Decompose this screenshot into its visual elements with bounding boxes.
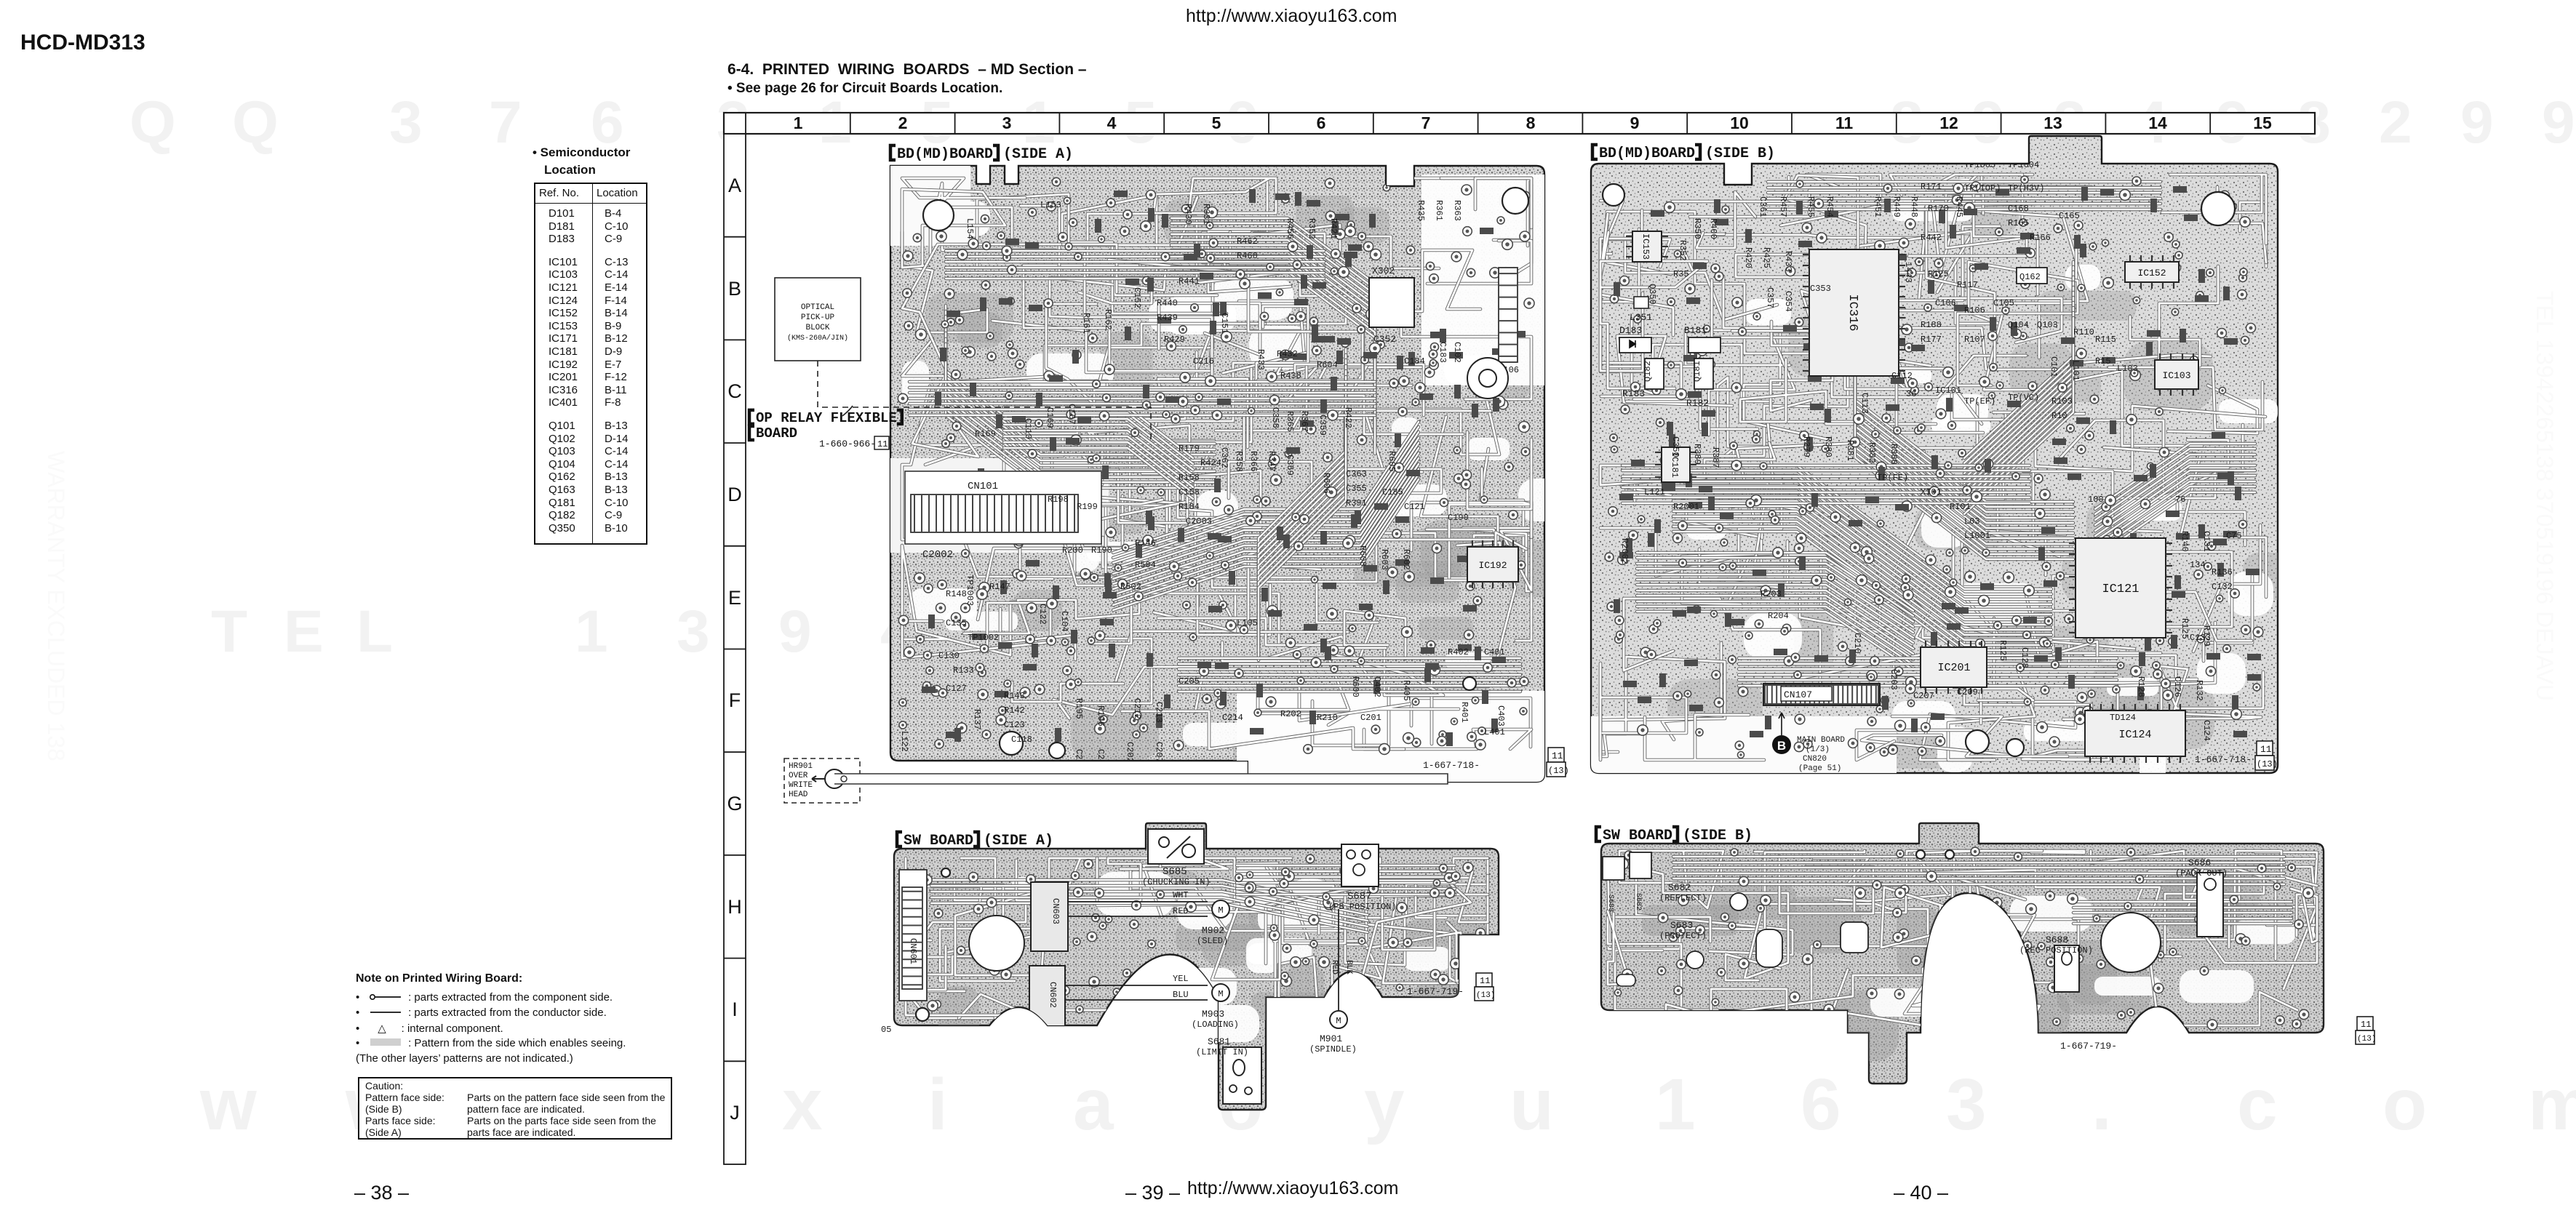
- svg-text:11: 11: [1552, 750, 1563, 761]
- svg-text:R456: R456: [1285, 218, 1295, 239]
- svg-text:C208: C208: [1074, 749, 1084, 770]
- svg-text:R161: R161: [1081, 313, 1091, 334]
- svg-text:C101: C101: [2049, 356, 2059, 377]
- svg-text:R188: R188: [1921, 320, 1942, 330]
- svg-text:(SLED): (SLED): [1197, 936, 1228, 946]
- svg-text:R432: R432: [1277, 349, 1298, 359]
- svg-text:BD(MD)BOARD: BD(MD)BOARD: [1599, 145, 1695, 162]
- svg-text:C: C: [727, 380, 742, 402]
- svg-text:R169: R169: [975, 429, 996, 439]
- svg-text:C207: C207: [1154, 742, 1164, 763]
- svg-text:TP(VC): TP(VC): [2008, 393, 2039, 403]
- svg-text:R600: R600: [1350, 676, 1360, 697]
- svg-text:C151: C151: [1219, 313, 1229, 334]
- svg-text:WRITE: WRITE: [789, 781, 813, 790]
- svg-text:R170: R170: [1928, 204, 1949, 214]
- svg-text:S685: S685: [1163, 866, 1187, 878]
- svg-text:C202: C202: [1125, 742, 1135, 763]
- svg-text:1-667-719-: 1-667-719-: [1407, 986, 1464, 997]
- svg-text:(LIMIT IN): (LIMIT IN): [1196, 1047, 1248, 1057]
- svg-text:C106: C106: [1935, 298, 1956, 308]
- svg-text:R361: R361: [1434, 200, 1444, 221]
- svg-text:11: 11: [2361, 1020, 2371, 1030]
- svg-text:S683: S683: [1606, 894, 1614, 912]
- svg-text:R602: R602: [1401, 549, 1411, 570]
- svg-text:R146: R146: [1135, 538, 1156, 548]
- svg-text:C132: C132: [2212, 582, 2233, 592]
- svg-text:R435: R435: [1416, 200, 1426, 221]
- svg-text:R448: R448: [1909, 196, 1919, 217]
- svg-text:R352: R352: [1678, 240, 1688, 261]
- svg-text:A: A: [728, 175, 741, 196]
- svg-text:IC101: IC101: [1935, 385, 1961, 396]
- svg-text:TP(EF): TP(EF): [1964, 396, 1995, 407]
- svg-text:TP(FE): TP(FE): [1877, 473, 1908, 483]
- svg-text:(PROTECT): (PROTECT): [1659, 931, 1707, 941]
- svg-text:R388: R388: [1889, 444, 1899, 465]
- svg-text:R35: R35: [1673, 269, 1689, 279]
- svg-text:R433: R433: [1256, 349, 1266, 370]
- svg-text:RED: RED: [1330, 960, 1339, 974]
- svg-text:R504: R504: [1135, 560, 1156, 570]
- svg-text:C124: C124: [2201, 720, 2212, 741]
- svg-text:M902: M902: [1202, 925, 1224, 936]
- svg-text:OPTICAL: OPTICAL: [801, 303, 834, 312]
- svg-text:R158: R158: [1179, 473, 1200, 483]
- svg-text:C203: C203: [1889, 669, 1899, 690]
- svg-text:3: 3: [1002, 113, 1012, 132]
- svg-text:(13): (13): [1548, 766, 1569, 776]
- svg-text:4: 4: [1107, 113, 1117, 132]
- svg-text:IC124: IC124: [2118, 729, 2151, 741]
- svg-text:F: F: [729, 689, 741, 711]
- svg-text:CN603: CN603: [1050, 898, 1061, 924]
- svg-text:C353: C353: [1810, 284, 1831, 294]
- svg-text:Q181: Q181: [1692, 361, 1702, 382]
- svg-text:S682: S682: [1668, 882, 1691, 893]
- svg-text:C121: C121: [1404, 502, 1425, 512]
- svg-text:R400: R400: [1708, 218, 1718, 239]
- svg-text:OVER: OVER: [789, 772, 808, 780]
- svg-text:L105: L105: [1237, 618, 1258, 628]
- svg-text:S686: S686: [2188, 857, 2211, 868]
- svg-text:R402: R402: [1448, 647, 1469, 657]
- svg-text:R454: R454: [1825, 196, 1835, 217]
- svg-text:C183: C183: [1437, 342, 1448, 363]
- svg-text:B: B: [728, 278, 741, 300]
- svg-text:R199: R199: [1077, 502, 1098, 512]
- svg-text:R387: R387: [1710, 447, 1720, 468]
- svg-text:R2002: R2002: [1619, 538, 1630, 564]
- svg-text:PICK-UP: PICK-UP: [801, 313, 835, 322]
- svg-text:C210: C210: [1852, 633, 1862, 654]
- svg-text:IC153: IC153: [1640, 233, 1651, 260]
- svg-text:R162: R162: [1103, 309, 1113, 330]
- svg-text:R147: R147: [989, 582, 1010, 592]
- svg-text:R171: R171: [1921, 182, 1942, 192]
- svg-text:R142: R142: [1004, 705, 1025, 716]
- svg-text:IC192: IC192: [1478, 560, 1507, 571]
- svg-text:C359: C359: [1317, 415, 1328, 436]
- svg-text:134: 134: [2190, 560, 2206, 570]
- svg-text:TP1004: TP1004: [2008, 160, 2039, 170]
- svg-text:R210: R210: [1317, 713, 1338, 723]
- svg-text:SW BOARD: SW BOARD: [904, 833, 973, 849]
- svg-text:R389: R389: [1692, 444, 1702, 465]
- svg-text:HEAD: HEAD: [789, 790, 808, 799]
- svg-text:R103: R103: [2051, 396, 2073, 407]
- svg-text:12: 12: [1939, 113, 1958, 132]
- svg-text:R367: R367: [1299, 411, 1309, 432]
- svg-text:C158: C158: [1179, 487, 1200, 497]
- svg-text:M903: M903: [1202, 1009, 1224, 1020]
- svg-text:R455: R455: [1806, 196, 1816, 217]
- svg-text:R117: R117: [1957, 280, 1978, 290]
- svg-text:C105: C105: [1993, 298, 2014, 308]
- svg-text:R166: R166: [2030, 233, 2051, 243]
- svg-text:C363: C363: [1346, 469, 1367, 479]
- svg-text:C123: C123: [1004, 720, 1025, 730]
- svg-text:C2002: C2002: [922, 549, 953, 561]
- svg-text:CN107: CN107: [1784, 689, 1812, 700]
- svg-text:7: 7: [1421, 113, 1431, 132]
- svg-text:L153: L153: [1040, 200, 1061, 210]
- svg-text:(13): (13): [1476, 991, 1495, 1000]
- svg-text:R140: R140: [2180, 531, 2190, 552]
- svg-text:C128: C128: [2019, 647, 2030, 668]
- svg-text:Q182: Q182: [1643, 361, 1653, 382]
- svg-text:HR901: HR901: [789, 762, 813, 771]
- svg-text:C127: C127: [946, 684, 967, 694]
- svg-text:C2003: C2003: [1186, 516, 1212, 527]
- svg-text:IC103: IC103: [2162, 370, 2190, 381]
- svg-text:9: 9: [1630, 113, 1640, 132]
- svg-text:C352: C352: [1373, 334, 1396, 345]
- svg-text:C135: C135: [946, 618, 967, 628]
- svg-text:C110: C110: [1023, 418, 1033, 439]
- svg-text:S688: S688: [2046, 934, 2068, 945]
- svg-text:R608: R608: [1357, 545, 1368, 567]
- svg-text:IC152: IC152: [2137, 268, 2166, 279]
- svg-text:R198: R198: [1048, 495, 1069, 505]
- svg-text:C152: C152: [1132, 287, 1142, 308]
- svg-text:C201: C201: [1360, 713, 1381, 723]
- svg-text:R115: R115: [2095, 335, 2116, 345]
- svg-text:MAIN BOARD: MAIN BOARD: [1797, 736, 1845, 745]
- svg-text:C118: C118: [1011, 734, 1032, 745]
- svg-text:R106: R106: [1964, 305, 1985, 316]
- svg-text:(1/3): (1/3): [1806, 745, 1830, 754]
- svg-text:R148: R148: [946, 589, 967, 599]
- svg-text:R605: R605: [1387, 451, 1397, 472]
- svg-text:R502: R502: [1120, 582, 1141, 592]
- svg-text:100: 100: [2088, 495, 2104, 505]
- svg-text:R439: R439: [1157, 313, 1178, 323]
- svg-text:R165: R165: [2008, 218, 2029, 228]
- svg-text:R182: R182: [1686, 398, 1709, 409]
- svg-text:(SIDE A): (SIDE A): [1003, 146, 1073, 163]
- svg-text:1443: 1443: [1903, 262, 1913, 283]
- svg-text:B: B: [1777, 739, 1786, 753]
- svg-text:M: M: [1218, 905, 1223, 916]
- svg-text:L154: L154: [965, 218, 975, 239]
- svg-text:C357: C357: [1765, 287, 1775, 308]
- svg-text:R382: R382: [1867, 442, 1877, 463]
- svg-text:Q162: Q162: [2019, 272, 2041, 282]
- svg-text:R200: R200: [1062, 545, 1083, 556]
- svg-text:M901: M901: [1320, 1033, 1342, 1044]
- svg-text:C213: C213: [1154, 702, 1164, 723]
- svg-text:R424: R424: [1200, 458, 1221, 468]
- svg-text:(SIDE B): (SIDE B): [1683, 828, 1752, 844]
- svg-text:Q104: Q104: [2008, 320, 2029, 330]
- svg-text:R363: R363: [1452, 200, 1462, 221]
- svg-text:B181: B181: [1684, 325, 1707, 336]
- svg-text:CN820: CN820: [1803, 755, 1827, 764]
- svg-text:CN602: CN602: [1048, 982, 1058, 1008]
- svg-text:I: I: [732, 998, 738, 1020]
- svg-text:R352: R352: [1307, 218, 1317, 239]
- svg-text:C190: C190: [1448, 513, 1469, 523]
- svg-text:L121: L121: [1644, 487, 1665, 497]
- svg-text:(LOADING): (LOADING): [1192, 1020, 1239, 1030]
- svg-text:R107: R107: [1964, 335, 1985, 345]
- svg-text:(SIDE B): (SIDE B): [1705, 145, 1775, 162]
- svg-text:R441: R441: [1179, 276, 1200, 287]
- svg-text:BLOCK: BLOCK: [805, 324, 829, 332]
- svg-text:C209: C209: [1957, 687, 1978, 697]
- svg-text:L351: L351: [1630, 312, 1652, 323]
- svg-text:R137: R137: [972, 709, 982, 730]
- svg-text:X302: X302: [1372, 265, 1395, 276]
- svg-text:XI01: XI01: [1921, 487, 1942, 497]
- svg-text:C122: C122: [1037, 604, 1048, 625]
- svg-text:R358: R358: [1234, 451, 1244, 472]
- svg-text:D183: D183: [1619, 325, 1642, 336]
- svg-text:CN101: CN101: [968, 481, 998, 492]
- svg-text:TP1002: TP1002: [968, 633, 999, 643]
- svg-text:(REFLECT): (REFLECT): [1659, 893, 1707, 903]
- svg-text:C207: C207: [1913, 691, 1934, 701]
- svg-text:R190: R190: [1091, 545, 1112, 556]
- svg-text:R440: R440: [1157, 298, 1178, 308]
- svg-text:R125: R125: [1998, 640, 2008, 661]
- svg-text:R132: R132: [2194, 680, 2204, 701]
- svg-text:R429: R429: [1164, 335, 1185, 345]
- svg-text:D: D: [727, 484, 742, 505]
- svg-text:E: E: [728, 587, 741, 609]
- svg-text:R143: R143: [1004, 691, 1025, 701]
- svg-text:5: 5: [1212, 113, 1221, 132]
- svg-text:14: 14: [2148, 113, 2167, 132]
- svg-text:C130: C130: [938, 651, 960, 661]
- svg-text:R420: R420: [1743, 247, 1753, 268]
- svg-text:R442: R442: [1921, 233, 1942, 243]
- svg-text:L03: L03: [1964, 516, 1980, 527]
- svg-text:BD(MD)BOARD: BD(MD)BOARD: [897, 146, 993, 163]
- svg-text:BOARD: BOARD: [756, 425, 797, 441]
- svg-text:R445: R445: [1954, 196, 1964, 217]
- svg-text:R133: R133: [953, 665, 974, 676]
- svg-text:R203: R203: [1760, 589, 1782, 599]
- svg-text:C361: C361: [1758, 196, 1768, 217]
- svg-text:L401: L401: [1484, 727, 1505, 737]
- svg-text:C355: C355: [1346, 484, 1367, 494]
- svg-text:C350: C350: [1670, 436, 1680, 457]
- svg-text:R438: R438: [1280, 371, 1301, 381]
- svg-text:R366: R366: [1248, 451, 1259, 472]
- svg-text:C133: C133: [2190, 633, 2211, 643]
- svg-text:R379: R379: [1801, 436, 1811, 457]
- svg-text:YEL: YEL: [1173, 974, 1189, 984]
- svg-text:S681: S681: [1208, 1036, 1230, 1047]
- svg-text:(13): (13): [2357, 1035, 2376, 1044]
- svg-text:R421: R421: [1328, 218, 1339, 239]
- svg-text:2: 2: [898, 113, 908, 132]
- svg-text:13: 13: [2043, 113, 2062, 132]
- svg-text:11: 11: [1480, 976, 1490, 986]
- svg-text:C102: C102: [1452, 342, 1462, 363]
- svg-text:R15: R15: [2095, 356, 2111, 367]
- svg-text:R202: R202: [1280, 709, 1301, 719]
- svg-text:11: 11: [1835, 113, 1854, 132]
- svg-text:05: 05: [881, 1025, 891, 1035]
- svg-text:R422: R422: [1343, 407, 1353, 428]
- svg-text:C169: C169: [1045, 407, 1055, 428]
- svg-text:8: 8: [1526, 113, 1536, 132]
- svg-text:C168: C168: [2008, 204, 2029, 214]
- svg-text:RED: RED: [1173, 906, 1189, 916]
- svg-text:L101: L101: [2070, 360, 2081, 381]
- svg-text:36: 36: [1906, 389, 1916, 399]
- svg-text:R177: R177: [1921, 335, 1942, 345]
- svg-text:R380: R380: [1823, 436, 1833, 457]
- svg-text:IC316: IC316: [1846, 294, 1859, 331]
- svg-text:IC121: IC121: [2102, 583, 2139, 596]
- svg-text:H: H: [727, 896, 742, 918]
- svg-text:1-667-718-: 1-667-718-: [1423, 760, 1480, 771]
- svg-text:C354: C354: [1783, 291, 1793, 312]
- svg-text:R110: R110: [2073, 327, 2094, 337]
- svg-text:(KMS-260A/JIN): (KMS-260A/JIN): [787, 334, 848, 343]
- svg-text:C206: C206: [1096, 749, 1106, 770]
- svg-text:(REC POSITION): (REC POSITION): [2019, 945, 2093, 956]
- svg-text:76: 76: [2175, 495, 2185, 505]
- svg-text:R451: R451: [1873, 196, 1883, 217]
- svg-text:R425: R425: [1761, 247, 1771, 268]
- svg-text:(Page 51): (Page 51): [1798, 764, 1841, 773]
- svg-text:6: 6: [1317, 113, 1326, 132]
- svg-text:M: M: [1218, 989, 1223, 999]
- svg-text:R183: R183: [1622, 388, 1645, 399]
- svg-text:S683: S683: [1670, 920, 1693, 931]
- svg-text:Q103: Q103: [2037, 320, 2058, 330]
- svg-text:C402: C402: [1372, 676, 1382, 697]
- svg-text:R195: R195: [1074, 698, 1084, 719]
- svg-text:G: G: [727, 793, 742, 814]
- svg-text:SW BOARD: SW BOARD: [1603, 828, 1672, 844]
- svg-text:(SPINDLE): (SPINDLE): [1309, 1044, 1357, 1054]
- svg-text:R433: R433: [1783, 251, 1793, 272]
- svg-text:OP RELAY FLEXIBLE: OP RELAY FLEXIBLE: [756, 410, 897, 426]
- svg-text:C212: C212: [1132, 698, 1142, 719]
- svg-text:BLU: BLU: [1173, 990, 1189, 1000]
- svg-text:1-667-719-: 1-667-719-: [2060, 1041, 2117, 1052]
- svg-text:R460: R460: [1237, 251, 1258, 261]
- svg-text:C401: C401: [1484, 647, 1505, 657]
- svg-text:L103: L103: [2117, 364, 2138, 374]
- svg-text:BLK: BLK: [1344, 960, 1353, 974]
- svg-text:(SIDE A): (SIDE A): [984, 833, 1053, 849]
- svg-text:C185: C185: [1382, 487, 1403, 497]
- svg-text:1-660-966-: 1-660-966-: [819, 439, 876, 449]
- svg-text:TD124: TD124: [2110, 713, 2136, 723]
- svg-text:C214: C214: [1222, 713, 1243, 723]
- svg-text:Q350: Q350: [1647, 284, 1657, 305]
- svg-text:15: 15: [2253, 113, 2272, 132]
- svg-text:(CHUCKING IN): (CHUCKING IN): [1142, 877, 1211, 887]
- svg-text:R365: R365: [1285, 411, 1295, 432]
- svg-text:C165: C165: [2059, 211, 2080, 221]
- svg-text:R125: R125: [1928, 269, 1949, 279]
- svg-text:1-667-718-: 1-667-718-: [2195, 754, 2252, 765]
- svg-text:C216: C216: [1193, 356, 1214, 367]
- svg-text:R604: R604: [1317, 360, 1338, 370]
- svg-text:R462: R462: [1237, 236, 1258, 247]
- svg-text:TP1005: TP1005: [1964, 160, 1995, 170]
- svg-text:R136: R136: [2212, 567, 2233, 577]
- svg-text:C126: C126: [2172, 676, 2182, 697]
- svg-text:(PACK OUT): (PACK OUT): [2175, 868, 2228, 878]
- svg-text:R405: R405: [1401, 680, 1411, 701]
- svg-text:R125: R125: [2180, 618, 2190, 639]
- svg-text:S687: S687: [1347, 891, 1372, 902]
- svg-text:CN601: CN601: [908, 938, 918, 964]
- svg-text:L122: L122: [899, 731, 909, 752]
- svg-text:R430: R430: [1183, 204, 1193, 225]
- svg-text:RI01: RI01: [1950, 502, 1971, 512]
- svg-text:R603: R603: [1379, 549, 1389, 570]
- svg-text:R128: R128: [2136, 676, 2146, 697]
- svg-text:C131: C131: [2201, 531, 2212, 552]
- svg-text:R381: R381: [1845, 440, 1855, 461]
- svg-text:10: 10: [1730, 113, 1749, 132]
- svg-text:J: J: [730, 1102, 740, 1124]
- svg-text:C104: C104: [1059, 611, 1069, 632]
- svg-text:L1001: L1001: [1964, 531, 1990, 541]
- svg-text:TP(H3V): TP(H3V): [2008, 183, 2044, 193]
- svg-text:C184: C184: [1404, 356, 1425, 367]
- svg-text:1: 1: [794, 113, 803, 132]
- svg-text:R184: R184: [1179, 502, 1200, 512]
- svg-text:C359: C359: [1285, 455, 1295, 476]
- svg-text:C403: C403: [1496, 705, 1506, 726]
- svg-text:R457: R457: [1778, 196, 1788, 217]
- svg-text:R449: R449: [1891, 196, 1902, 217]
- svg-text:S682: S682: [1634, 893, 1642, 910]
- svg-text:R606: R606: [1321, 473, 1331, 494]
- svg-text:C205: C205: [1179, 676, 1200, 686]
- svg-text:(13): (13): [2257, 759, 2278, 769]
- svg-text:11: 11: [2260, 744, 2272, 755]
- svg-text:11: 11: [877, 439, 888, 449]
- svg-text:C358: C358: [1270, 407, 1280, 428]
- svg-text:C113: C113: [1859, 393, 1870, 414]
- svg-text:R196: R196: [1096, 705, 1106, 726]
- svg-text:IC201: IC201: [1937, 662, 1970, 674]
- svg-text:R204: R204: [1768, 611, 1789, 621]
- svg-text:R179: R179: [1179, 444, 1200, 454]
